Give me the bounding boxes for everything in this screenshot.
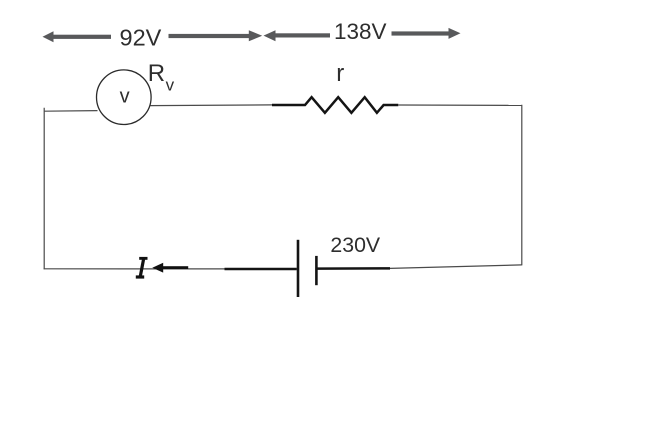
battery BT1 short plate (315, 256, 318, 285)
svg-text:v: v (166, 75, 175, 94)
battery BT1 long plate (297, 240, 300, 297)
svg-text:138V: 138V (334, 19, 387, 44)
wire left vertical (43, 108, 45, 269)
dimension arrow 92V (43, 30, 263, 42)
svg-text:v: v (120, 85, 130, 107)
wire right vertical (521, 105, 523, 266)
wire bottom-left segment (44, 268, 225, 270)
current arrow (152, 263, 188, 273)
wire top-left segment (44, 110, 97, 113)
battery BT1 left lead (225, 268, 297, 271)
svg-text:r: r (336, 60, 344, 87)
resistor r (272, 97, 398, 113)
svg-text:92V: 92V (120, 25, 162, 51)
battery BT1 right lead (318, 267, 391, 270)
dimension arrow 138V (264, 28, 461, 41)
svg-text:230V: 230V (330, 233, 381, 257)
wire voltmeter to resistor (151, 104, 273, 107)
wire bottom-right slant (390, 265, 522, 269)
label I (136, 257, 148, 279)
voltmeter U1 circle (97, 70, 152, 125)
wire resistor to top-right corner (398, 104, 522, 106)
svg-text:R: R (148, 60, 165, 87)
